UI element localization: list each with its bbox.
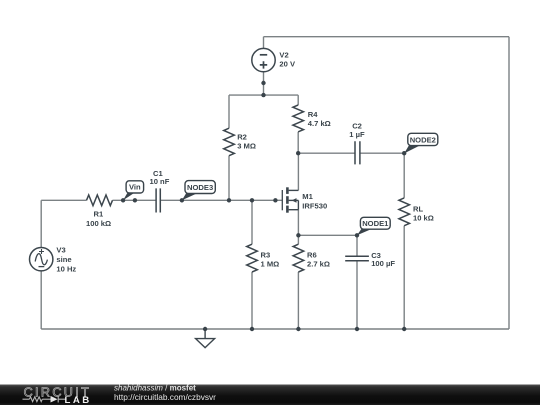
voltage source V3 sine wave	[35, 254, 47, 265]
wire C1 right plate to MOSFET gate	[160, 199, 282, 201]
wire R6 bottom lead to ground rail	[297, 272, 299, 329]
svg-text:sine: sine	[56, 255, 71, 264]
capacitor C2 plates	[355, 141, 360, 164]
node flag NODE1	[357, 217, 390, 235]
wire bottom ground rail	[41, 328, 509, 330]
node dot V2 bottom terminal	[261, 81, 265, 85]
svg-text:10 nF: 10 nF	[150, 177, 170, 186]
svg-text:4.7 kΩ: 4.7 kΩ	[308, 119, 331, 128]
node flag NODE3	[182, 181, 215, 201]
node dot NODE3 tap	[180, 198, 184, 202]
svg-text:NODE3: NODE3	[187, 183, 213, 192]
M1 body lead	[289, 199, 299, 201]
node dot ground tap	[203, 327, 207, 331]
wire right vertical return	[508, 37, 510, 329]
wire left vertical above V3	[40, 200, 42, 247]
voltage source V2 minus sign	[260, 54, 267, 56]
voltage source V3 minus mark	[39, 266, 45, 268]
svg-text:2.7 kΩ: 2.7 kΩ	[307, 259, 330, 268]
node dot NODE2 junction	[402, 151, 406, 155]
svg-text:RL: RL	[413, 204, 423, 213]
node dot RL bottom	[402, 327, 406, 331]
resistor R1	[87, 195, 113, 206]
voltage source V3 circle	[30, 248, 53, 271]
resistor R3	[247, 244, 258, 272]
wire R3 top lead	[251, 200, 253, 244]
wire +20V rail R2 to R4	[229, 94, 298, 96]
svg-text:Vin: Vin	[129, 183, 141, 192]
node dot R3 top junction	[250, 198, 254, 202]
svg-text:3 MΩ: 3 MΩ	[237, 142, 256, 151]
wire C2 right plate to NODE2	[360, 152, 404, 154]
wire C3 bottom lead to ground rail	[356, 261, 358, 329]
node dot V2 rail junction	[261, 93, 265, 97]
wire R6 top lead	[297, 235, 299, 244]
node dot R2 bottom junction	[227, 198, 231, 202]
wire NODE2 down to RL	[403, 153, 405, 198]
wire R3 bottom lead to ground rail	[251, 272, 253, 329]
M1 drain lead	[289, 189, 299, 191]
voltage source V2 circle	[252, 48, 275, 71]
M1 channel bottom segment	[286, 206, 289, 213]
svg-text:R6: R6	[307, 250, 317, 259]
wire drain node to C2 left plate	[298, 152, 355, 154]
svg-text:20 V: 20 V	[279, 60, 296, 69]
wire top rail from V2 plus terminal to right edge	[264, 36, 510, 38]
node dot source junction	[296, 233, 300, 237]
capacitor C1 plates	[156, 188, 160, 212]
M1 body-source join	[297, 200, 299, 209]
wire R2 top lead	[228, 95, 230, 128]
MOSFET M1	[282, 187, 298, 212]
svg-text:100 kΩ: 100 kΩ	[86, 219, 111, 228]
node dot NODE1 / C3 junction	[355, 233, 359, 237]
M1 gate bar	[281, 190, 283, 210]
wire input node from corner to R1	[41, 199, 86, 201]
wire MOSFET source vertical to source node	[297, 210, 299, 236]
wire left vertical below V3	[40, 271, 42, 329]
wire MOSFET drain vertical	[297, 153, 299, 190]
logo schematic line with resistor and diode	[23, 396, 66, 403]
svg-text:NODE2: NODE2	[410, 135, 436, 144]
svg-text:http://circuitlab.com/czbvsvr: http://circuitlab.com/czbvsvr	[114, 392, 216, 402]
voltage source V3 plus mark	[39, 249, 44, 254]
svg-text:1 µF: 1 µF	[349, 130, 365, 139]
svg-text:IRF530: IRF530	[302, 201, 327, 210]
svg-text:R4: R4	[308, 110, 318, 119]
wire R4 top lead	[297, 95, 299, 105]
node flag NODE2	[404, 133, 438, 153]
NODE FLAGS	[123, 133, 438, 235]
wire R2 bottom lead	[228, 156, 230, 201]
wire C3 top lead	[356, 235, 358, 256]
footer bar	[0, 385, 540, 405]
resistor RL	[399, 198, 410, 226]
node dot C3 bottom	[355, 327, 359, 331]
wire source node to C3	[298, 234, 357, 236]
node dot gate terminal	[273, 198, 277, 202]
COMPONENT BODIES	[30, 48, 410, 272]
capacitor C3 plates	[345, 256, 369, 261]
node dot drain junction	[296, 151, 300, 155]
wire R1 to C1 left plate	[113, 199, 157, 201]
wire V2 top stub	[263, 37, 265, 49]
M1 channel middle segment	[286, 196, 289, 204]
wire R4 bottom lead to drain node	[297, 132, 299, 153]
svg-text:100 µF: 100 µF	[371, 259, 395, 268]
voltage source V2 plus sign	[260, 61, 267, 68]
wire RL bottom lead to ground rail	[403, 226, 405, 329]
svg-text:R1: R1	[94, 210, 104, 219]
svg-text:V2: V2	[279, 51, 288, 60]
node dot R6 bottom	[296, 327, 300, 331]
svg-text:R2: R2	[237, 133, 247, 142]
node flag Vin	[123, 181, 144, 201]
wire V2 bottom stub to rail	[263, 72, 265, 95]
svg-text:10 Hz: 10 Hz	[56, 264, 76, 273]
svg-text:10 kΩ: 10 kΩ	[413, 214, 434, 223]
ground symbol	[196, 329, 215, 348]
logo diode triangle	[51, 396, 58, 403]
node dot C1 left terminal	[133, 198, 137, 202]
svg-text:LAB: LAB	[65, 395, 92, 405]
node dot R3 bottom	[250, 327, 254, 331]
svg-text:R3: R3	[261, 250, 271, 259]
resistor R2	[224, 128, 235, 156]
resistor R4	[293, 105, 304, 132]
M1 body arrow	[292, 198, 297, 203]
svg-text:1 MΩ: 1 MΩ	[261, 259, 280, 268]
svg-text:M1: M1	[302, 192, 313, 201]
svg-text:V3: V3	[56, 246, 65, 255]
svg-text:NODE1: NODE1	[362, 219, 389, 228]
M1 source lead	[289, 209, 299, 211]
node dot Vin tap	[121, 198, 125, 202]
M1 channel top segment	[286, 187, 289, 194]
resistor R6	[293, 244, 304, 272]
